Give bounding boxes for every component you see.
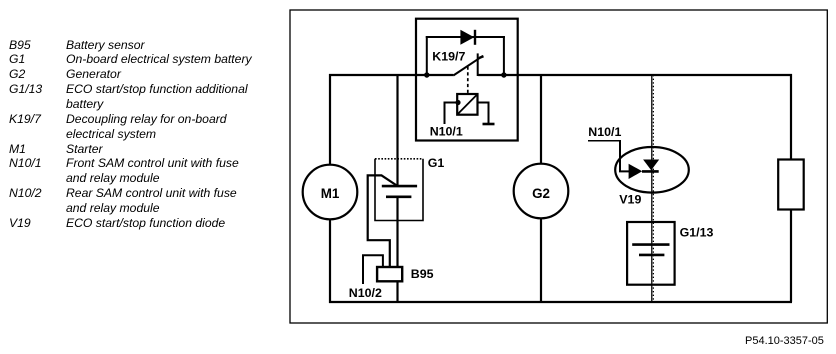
drawing number caption (745, 335, 824, 347)
diode inside K19/7 (460, 30, 474, 45)
wire: coil right lead (478, 103, 489, 124)
svg-text:G2: G2 (532, 186, 550, 201)
relay coil of K19/7 (457, 94, 477, 115)
svg-text:K19/7: K19/7 (432, 50, 465, 64)
wire: bottom bus (329, 301, 792, 303)
svg-text:N10/2: N10/2 (349, 286, 382, 300)
legend description column (66, 38, 252, 231)
wire: top bus left segment (node 30) (329, 74, 453, 76)
wire: bypass diode loop right leg (503, 36, 505, 76)
battery clamp lead (G1 positive tap) (368, 175, 398, 267)
diode V19 enclosure ellipse (615, 147, 689, 193)
wire: N10/2 lead to B95 (363, 255, 383, 284)
border frame (290, 10, 827, 323)
auxiliary battery G1/13 housing (627, 222, 675, 285)
coil terminal node (455, 100, 460, 105)
wire: coil left lead (445, 103, 458, 125)
wire: M1 to bottom bus (329, 219, 331, 303)
wire: N10/1 lead to diode V19 (620, 141, 630, 172)
ground symbol (483, 123, 495, 126)
wire: fixed contact drop (477, 53, 479, 76)
generator G2 (514, 164, 569, 219)
diode V19 cathode bar (642, 170, 659, 173)
wire: bypass diode loop top (426, 36, 505, 38)
svg-text:M1: M1 (321, 186, 340, 201)
wire: M1 top feed (329, 74, 331, 165)
diode cathode bar (474, 30, 476, 45)
wire: battery negative to sensor B95 (396, 196, 398, 268)
relay actuation dashed link (467, 67, 469, 94)
svg-text:N10/1: N10/1 (588, 125, 621, 139)
svg-text:V19: V19 (619, 193, 641, 207)
wire: B95 to bottom bus (396, 280, 398, 303)
relay K19/7 housing box (416, 19, 518, 141)
wire: G2 top feed (540, 74, 542, 164)
wire: N10/1 underline (588, 140, 621, 142)
wire: ECO battery branch dotted overlay (652, 75, 654, 301)
arrow into V19 (629, 164, 643, 179)
svg-text:N10/1: N10/1 (430, 125, 463, 139)
switch arm of relay K19/7 (453, 56, 483, 76)
svg-text:G1: G1 (428, 156, 445, 170)
wire: bypass diode loop left leg (426, 36, 428, 76)
battery G1/13 positive plate (632, 243, 669, 246)
junction node left (424, 72, 429, 77)
battery sensor B95 (377, 267, 402, 281)
resistor / load on right branch (778, 160, 804, 210)
battery G1/13 negative plate (639, 254, 664, 257)
motor starter M1 (303, 165, 358, 220)
wire: top bus right segment (478, 74, 792, 76)
junction node right (501, 72, 506, 77)
wire: right-side vertical to resistor top (790, 74, 792, 160)
wire: resistor bottom to bottom bus (790, 209, 792, 302)
svg-text:G1/13: G1/13 (680, 226, 714, 240)
diode V19 triangle (643, 160, 659, 171)
battery G1 housing (dotted top) (375, 159, 423, 221)
legend designator column (9, 38, 42, 231)
wire: battery G1 feed from bus (396, 74, 398, 187)
battery G1 positive plate (382, 185, 417, 188)
battery G1 negative plate (386, 196, 411, 199)
wire: ECO battery branch solid line (651, 75, 653, 301)
svg-text:B95: B95 (411, 267, 434, 281)
wire: G2 to bottom bus (540, 218, 542, 303)
